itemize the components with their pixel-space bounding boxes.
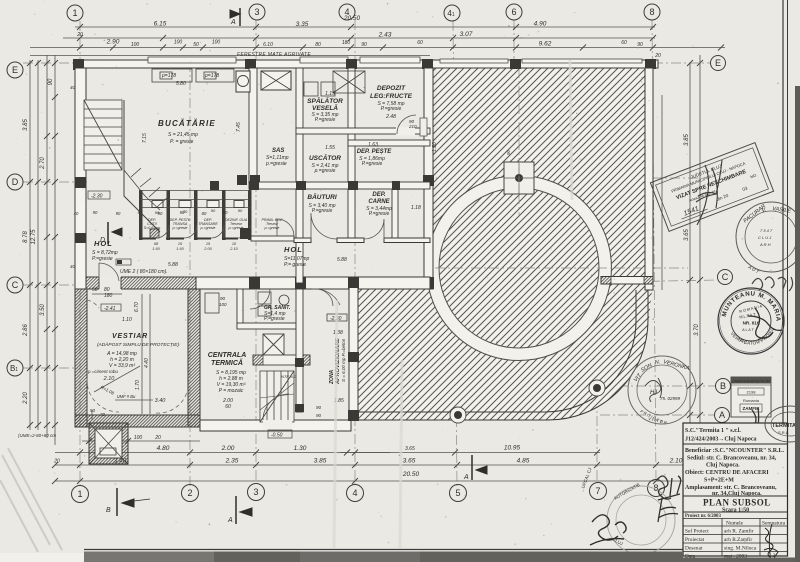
svg-text:90: 90 bbox=[93, 210, 98, 215]
svg-text:VESTIAR: VESTIAR bbox=[112, 333, 148, 340]
svg-text:P.=gresie: P.=gresie bbox=[362, 161, 383, 167]
svg-text:arh R.Zamfir: arh R.Zamfir bbox=[724, 536, 752, 543]
interior wall dep peste top bbox=[348, 140, 430, 146]
svg-text:2.86: 2.86 bbox=[23, 324, 29, 337]
svg-text:1.60: 1.60 bbox=[176, 247, 184, 251]
stamp termita oval bbox=[765, 406, 800, 442]
svg-text:70: 70 bbox=[100, 412, 106, 417]
svg-text:HOL: HOL bbox=[284, 245, 303, 254]
svg-text:p.=gresie: p.=gresie bbox=[314, 168, 336, 174]
svg-text:2.10: 2.10 bbox=[103, 376, 116, 382]
svg-text:p=178: p=178 bbox=[161, 73, 176, 79]
svg-text:40: 40 bbox=[74, 211, 79, 216]
pool centre square bbox=[504, 162, 534, 194]
label hol left bbox=[92, 239, 118, 262]
svg-text:D: D bbox=[12, 177, 19, 187]
handwritten signature jus bbox=[590, 515, 626, 545]
svg-text:5.88: 5.88 bbox=[337, 257, 347, 263]
terrace centreline bbox=[435, 267, 688, 269]
svg-text:75. 02999: 75. 02999 bbox=[660, 396, 681, 401]
centrala stair bbox=[260, 371, 294, 422]
vent grille marks bbox=[327, 314, 347, 322]
svg-text:7: 7 bbox=[595, 486, 600, 496]
svg-text:A: A bbox=[719, 410, 725, 420]
svg-text:5.88: 5.88 bbox=[168, 262, 178, 268]
axis bubble E left bbox=[7, 62, 23, 78]
svg-text:Desenat: Desenat bbox=[685, 546, 703, 552]
svg-text:100: 100 bbox=[134, 435, 143, 441]
svg-text:90: 90 bbox=[116, 211, 121, 216]
svg-text:C: C bbox=[722, 272, 729, 282]
svg-text:3.65: 3.65 bbox=[403, 458, 416, 465]
svg-text:arh R. Zamfir: arh R. Zamfir bbox=[724, 528, 754, 535]
axis bubble 4 bottom bbox=[347, 485, 364, 502]
svg-text:4.40: 4.40 bbox=[144, 358, 150, 368]
svg-text:TERMITA: TERMITA bbox=[772, 423, 796, 429]
label gr sanit bbox=[264, 305, 290, 322]
svg-text:Semnatura: Semnatura bbox=[762, 521, 786, 527]
svg-text:3.85: 3.85 bbox=[23, 119, 29, 131]
svg-text:100: 100 bbox=[212, 40, 221, 46]
svg-text:Sef Proiect: Sef Proiect bbox=[685, 528, 709, 535]
label depozit bbox=[370, 85, 413, 120]
svg-text:40: 40 bbox=[70, 85, 76, 90]
svg-text:7 5 4 7: 7 5 4 7 bbox=[760, 228, 773, 233]
svg-text:80: 80 bbox=[315, 42, 321, 48]
svg-text:NR. 616: NR. 616 bbox=[743, 321, 760, 326]
svg-text:2.10: 2.10 bbox=[229, 247, 238, 251]
interior wall spalator/uscator bbox=[296, 128, 430, 134]
vestiar west wall bbox=[75, 289, 87, 427]
door arcs interior bbox=[99, 115, 416, 309]
svg-text:A R H: A R H bbox=[759, 242, 771, 247]
svg-text:p=178: p=178 bbox=[204, 73, 219, 79]
bottom-left corner smudge bbox=[0, 448, 62, 552]
svg-text:12.75: 12.75 bbox=[31, 229, 37, 245]
svg-text:2.43: 2.43 bbox=[378, 32, 392, 39]
svg-text:Obiect: CENTRU DE AFACERI: Obiect: CENTRU DE AFACERI bbox=[685, 470, 769, 476]
top dimension labels bbox=[76, 15, 661, 59]
bottom dimension labels bbox=[53, 435, 722, 478]
axis bubble 8 top bbox=[644, 4, 660, 20]
pool ring bbox=[433, 182, 605, 354]
axis bubble B right bbox=[716, 379, 731, 394]
vestiar east wall bbox=[188, 289, 200, 427]
svg-text:5: 5 bbox=[455, 488, 460, 498]
axis bubble B1 left bbox=[7, 360, 23, 376]
svg-text:Proiect nr. 6/2003: Proiect nr. 6/2003 bbox=[685, 514, 721, 519]
svg-text:2.10: 2.10 bbox=[669, 458, 683, 465]
svg-text:P.=gresie: P.=gresie bbox=[381, 106, 402, 112]
svg-text:90: 90 bbox=[211, 208, 216, 213]
svg-text:100: 100 bbox=[174, 40, 183, 46]
stamp vizat rectangular bbox=[650, 143, 773, 232]
svg-text:1.30: 1.30 bbox=[294, 445, 307, 452]
svg-text:p.=gresie: p.=gresie bbox=[200, 226, 216, 230]
kitchen shaft left bbox=[236, 71, 250, 92]
top dimension ticks bbox=[77, 24, 724, 51]
svg-text:Scara 1:50: Scara 1:50 bbox=[722, 508, 749, 514]
svg-text:Beneficiar :S.C."NCOUNTER" S.R: Beneficiar :S.C."NCOUNTER" S.R.L. bbox=[685, 448, 785, 454]
svg-text:3.85: 3.85 bbox=[314, 458, 327, 465]
vitson signature bbox=[645, 378, 662, 402]
axis bubble D left bbox=[7, 174, 23, 190]
svg-text:SAS: SAS bbox=[272, 148, 284, 154]
right dimension labels bbox=[684, 134, 700, 436]
wall x296 lower extension bbox=[296, 289, 303, 412]
svg-text:50: 50 bbox=[193, 42, 199, 48]
left dimension labels bbox=[23, 78, 54, 405]
svg-text:4.80: 4.80 bbox=[157, 445, 170, 452]
svg-text:4.90: 4.90 bbox=[534, 21, 547, 28]
svg-text:P.=gresie: P.=gresie bbox=[369, 211, 390, 217]
gr sanit fixtures2 bbox=[258, 292, 289, 316]
svg-text:90: 90 bbox=[361, 42, 367, 48]
svg-text:3.07: 3.07 bbox=[460, 31, 473, 38]
svg-text:60: 60 bbox=[225, 404, 231, 410]
label hol right bbox=[284, 245, 310, 268]
svg-text:20: 20 bbox=[76, 32, 83, 38]
svg-text:p.=gresie: p.=gresie bbox=[172, 226, 188, 230]
svg-text:100: 100 bbox=[131, 42, 140, 48]
svg-text:90: 90 bbox=[220, 296, 226, 301]
svg-text:1.63: 1.63 bbox=[368, 142, 378, 148]
svg-text:20: 20 bbox=[154, 435, 161, 441]
svg-text:50: 50 bbox=[92, 287, 98, 293]
svg-text:DEP. PEȘTE: DEP. PEȘTE bbox=[357, 149, 393, 155]
svg-text:P.=gresie: P.=gresie bbox=[312, 208, 333, 214]
svg-text:PLAN SUBSOL: PLAN SUBSOL bbox=[703, 498, 771, 508]
label zona aprovizionare bbox=[329, 338, 346, 385]
svg-text:S=0,81mp: S=0,81mp bbox=[144, 226, 160, 230]
axis bubble 41 top bbox=[444, 5, 460, 21]
misc small dims inside plan bbox=[18, 73, 511, 452]
terrace hatched slab bbox=[358, 66, 652, 420]
svg-text:BĂUTURI: BĂUTURI bbox=[307, 192, 336, 201]
svg-text:3.40: 3.40 bbox=[155, 398, 167, 404]
vizat handwriting bbox=[696, 160, 722, 225]
stair top-left bbox=[84, 100, 168, 232]
label dep carne bbox=[366, 192, 392, 217]
svg-text:S = 6,00 mp P.=beton: S = 6,00 mp P.=beton bbox=[341, 338, 346, 382]
scan edge right band bbox=[795, 86, 800, 562]
axis bubble 5 bottom bbox=[450, 485, 467, 502]
svg-text:90: 90 bbox=[316, 413, 322, 418]
svg-text:E: E bbox=[12, 65, 18, 75]
label centrala termica bbox=[208, 352, 247, 410]
column circle axis5 bbox=[450, 407, 466, 423]
stamp vitson circular bbox=[628, 356, 696, 424]
svg-text:p.=ciment robu: p.=ciment robu bbox=[87, 369, 118, 374]
svg-text:2.48: 2.48 bbox=[385, 114, 396, 120]
svg-text:1.30: 1.30 bbox=[432, 142, 438, 152]
svg-text:P.= gresie: P.= gresie bbox=[284, 262, 306, 268]
svg-text:80: 80 bbox=[138, 210, 143, 215]
svg-text:Sediul: str. C. Brancoveanu, n: Sediul: str. C. Brancoveanu, nr. 34, bbox=[687, 456, 777, 462]
svg-text:B: B bbox=[720, 381, 726, 391]
svg-text:90: 90 bbox=[238, 208, 243, 213]
svg-text:10.95: 10.95 bbox=[504, 445, 521, 452]
vestiar interior marks bbox=[87, 300, 187, 413]
top dimension lines bbox=[30, 27, 725, 56]
svg-text:90: 90 bbox=[316, 405, 322, 410]
interior wall x296 bbox=[296, 68, 303, 283]
svg-text:40: 40 bbox=[70, 264, 76, 269]
corridor door arc bbox=[312, 289, 340, 305]
munteanu signature bbox=[748, 308, 782, 338]
svg-text:DEPOZIT: DEPOZIT bbox=[377, 85, 406, 92]
interior wall y182 bbox=[249, 182, 430, 189]
label spalator bbox=[307, 91, 343, 123]
svg-text:6.10: 6.10 bbox=[263, 42, 273, 48]
svg-text:90: 90 bbox=[506, 149, 511, 155]
svg-text:3.70: 3.70 bbox=[694, 324, 700, 336]
svg-text:5.80: 5.80 bbox=[176, 81, 186, 87]
svg-text:SPĂLĂTOR: SPĂLĂTOR bbox=[307, 96, 343, 105]
svg-text:2.35: 2.35 bbox=[225, 458, 239, 465]
svg-text:2198: 2198 bbox=[747, 390, 757, 395]
stamp pacurar circular bbox=[736, 202, 800, 272]
svg-text:P.=gresie: P.=gresie bbox=[92, 256, 113, 262]
duct shaft crossed bbox=[261, 71, 291, 90]
section flag A bottom bbox=[227, 496, 252, 524]
section flag A mid bbox=[463, 455, 487, 481]
svg-text:P. = gresie: P. = gresie bbox=[170, 139, 194, 145]
svg-text:Cluj Napoca.: Cluj Napoca. bbox=[706, 463, 740, 469]
svg-text:1.60: 1.60 bbox=[152, 247, 160, 251]
svg-text:3: 3 bbox=[253, 487, 258, 497]
cabin dim labels bbox=[152, 242, 238, 251]
cabin partition walls bbox=[139, 190, 252, 240]
svg-text:S = 21,45 mp: S = 21,45 mp bbox=[168, 132, 198, 138]
svg-text:2.20: 2.20 bbox=[23, 392, 29, 405]
svg-text:C: C bbox=[12, 280, 19, 290]
svg-text:6.70: 6.70 bbox=[134, 302, 140, 312]
left dimension ticks bbox=[27, 60, 58, 428]
svg-text:A: A bbox=[227, 517, 233, 524]
svg-text:CENTRALA: CENTRALA bbox=[208, 352, 247, 359]
misc level boxes bbox=[88, 191, 292, 439]
svg-text:3.65: 3.65 bbox=[684, 229, 690, 241]
signature top right corner bbox=[752, 277, 793, 291]
svg-text:(ADĂPOST SIMPLU DE PROTECȚIE): (ADĂPOST SIMPLU DE PROTECȚIE) bbox=[97, 341, 179, 348]
svg-text:7.15: 7.15 bbox=[142, 133, 148, 143]
kitchen se column bbox=[240, 228, 251, 239]
svg-text:1.15: 1.15 bbox=[325, 91, 335, 97]
axis bubble 8 bottom bbox=[648, 480, 665, 497]
svg-text:6: 6 bbox=[511, 7, 516, 17]
svg-text:D: D bbox=[100, 237, 105, 244]
svg-text:50: 50 bbox=[90, 408, 96, 413]
axis bubble A right bbox=[715, 408, 730, 423]
scan edge bottom band bbox=[84, 552, 683, 562]
svg-text:90: 90 bbox=[180, 210, 185, 215]
svg-text:Numele: Numele bbox=[726, 521, 744, 527]
svg-text:A: A bbox=[230, 19, 236, 26]
cabin labels bbox=[144, 208, 248, 230]
svg-text:C L U J: C L U J bbox=[758, 235, 772, 240]
svg-text:2.90: 2.90 bbox=[106, 39, 120, 46]
svg-text:90: 90 bbox=[48, 78, 54, 85]
door gap depozit bbox=[396, 127, 415, 136]
certificate box above title bbox=[731, 377, 771, 440]
svg-text:-0.50: -0.50 bbox=[271, 433, 283, 439]
svg-text:ZONA: ZONA bbox=[329, 369, 335, 385]
wall C door gap bbox=[99, 276, 121, 290]
terrace east wall bbox=[645, 68, 653, 290]
svg-text:sing. M.Niluca: sing. M.Niluca bbox=[724, 546, 757, 552]
bottom dimension ticks bbox=[52, 438, 756, 484]
svg-text:180: 180 bbox=[342, 40, 351, 46]
exterior shaft bbox=[89, 423, 128, 464]
svg-text:20.50: 20.50 bbox=[402, 471, 420, 478]
left dimension lines bbox=[30, 55, 55, 445]
svg-text:S+P+2E+M: S+P+2E+M bbox=[704, 478, 734, 484]
label dep peste bbox=[357, 142, 393, 167]
cabin window boxes bbox=[152, 201, 244, 208]
right dimension lines bbox=[662, 55, 700, 460]
svg-text:BUCĂTĂRIE: BUCĂTĂRIE bbox=[158, 119, 216, 128]
svg-text:2.00: 2.00 bbox=[203, 247, 212, 251]
section flag B bottom bbox=[106, 488, 150, 516]
label sas bbox=[265, 148, 289, 167]
stamp munteanu circular bbox=[718, 288, 784, 354]
svg-text:3: 3 bbox=[254, 7, 259, 17]
svg-text:20: 20 bbox=[53, 459, 60, 465]
svg-text:1.10: 1.10 bbox=[122, 317, 132, 323]
svg-text:(UME=2-80+80 cm: (UME=2-80+80 cm bbox=[18, 433, 56, 438]
svg-text:Proiectat: Proiectat bbox=[685, 537, 705, 543]
svg-text:90: 90 bbox=[158, 211, 163, 216]
svg-text:210: 210 bbox=[408, 124, 417, 129]
svg-text:2: 2 bbox=[187, 488, 192, 498]
axis bubble 4 top bbox=[339, 4, 355, 20]
building east wall bbox=[424, 68, 433, 289]
svg-text:P = mozaic: P = mozaic bbox=[219, 388, 244, 394]
vertical duct column mid bbox=[210, 175, 247, 190]
gr sanit room walls bbox=[237, 289, 296, 329]
interior wall x348 bbox=[348, 68, 355, 242]
axis bubble 1 bottom bbox=[72, 486, 89, 503]
svg-text:1: 1 bbox=[72, 8, 77, 18]
title block bbox=[683, 423, 788, 560]
title block signatures bbox=[764, 524, 778, 559]
svg-text:TERMICĂ: TERMICĂ bbox=[211, 358, 243, 367]
sheet frame bottom bbox=[84, 549, 788, 551]
axis bubble 3 top bbox=[249, 4, 265, 20]
svg-text:3.35: 3.35 bbox=[296, 21, 309, 28]
svg-text:E: E bbox=[715, 58, 721, 68]
svg-text:VESELĂ: VESELĂ bbox=[312, 103, 338, 112]
terrace south wall with curve bbox=[358, 290, 636, 412]
sheet frame right bbox=[782, 0, 784, 551]
svg-text:LEG:FRUCTE: LEG:FRUCTE bbox=[370, 93, 413, 100]
svg-text:Romania: Romania bbox=[743, 398, 760, 403]
interior wall kitchen east bbox=[249, 68, 257, 183]
axis bubble 7 bottom bbox=[590, 483, 607, 500]
svg-text:1.70: 1.70 bbox=[135, 380, 141, 390]
north wall columns bbox=[73, 59, 656, 70]
svg-text:UME 2 ( 80×180 cm).: UME 2 ( 80×180 cm). bbox=[120, 269, 168, 275]
axis centerlines vertical bbox=[80, 20, 656, 486]
svg-text:p.=gresie: p.=gresie bbox=[265, 161, 287, 167]
axis bubble 3 bottom bbox=[248, 484, 265, 501]
bauturi & carne bottom wall bbox=[294, 238, 430, 243]
label bauturi bbox=[307, 192, 336, 214]
svg-text:3.50: 3.50 bbox=[40, 304, 46, 316]
svg-text:CARNE: CARNE bbox=[368, 199, 390, 205]
svg-text:6.15: 6.15 bbox=[154, 21, 167, 28]
svg-text:8: 8 bbox=[653, 483, 658, 493]
handwritten note 812 bbox=[657, 476, 681, 522]
ct duct assembly bbox=[253, 334, 310, 365]
kitchen lower dim row bbox=[74, 210, 228, 216]
faint round stamp bottom bbox=[607, 486, 675, 554]
svg-text:-2.41: -2.41 bbox=[104, 306, 116, 312]
column circle axis7 bbox=[589, 380, 605, 396]
kitchen counters top bbox=[152, 69, 234, 82]
svg-text:60: 60 bbox=[621, 40, 627, 46]
svg-text:2.00: 2.00 bbox=[221, 445, 235, 452]
svg-text:1.18: 1.18 bbox=[411, 205, 421, 211]
svg-text:20: 20 bbox=[654, 53, 661, 59]
bottom dimension lines bbox=[55, 441, 757, 481]
svg-text:1.55: 1.55 bbox=[325, 145, 335, 151]
prima buc cell bbox=[262, 218, 283, 230]
cabin top and sill lines bbox=[139, 191, 251, 208]
axis bubble E right bbox=[711, 56, 726, 71]
label bucatarie bbox=[158, 119, 216, 145]
svg-text:4: 4 bbox=[352, 488, 357, 498]
svg-text:3.65: 3.65 bbox=[405, 446, 415, 452]
svg-text:DEP.: DEP. bbox=[372, 192, 386, 198]
svg-text:J12/424/2003→Cluj Napoca: J12/424/2003→Cluj Napoca bbox=[685, 437, 757, 443]
wall C right segment bbox=[601, 277, 653, 285]
ct equipment bbox=[205, 293, 219, 313]
axis bubble 2 bottom bbox=[182, 485, 199, 502]
svg-text:P.=gresie: P.=gresie bbox=[264, 316, 285, 322]
svg-text:P.=gresie: P.=gresie bbox=[315, 117, 336, 123]
svg-text:4.85: 4.85 bbox=[517, 458, 530, 465]
svg-text:UMF # Bu: UMF # Bu bbox=[117, 394, 136, 399]
dep carne east wall bbox=[392, 185, 398, 242]
paper fold streaks bbox=[334, 60, 572, 548]
svg-text:2.70: 2.70 bbox=[40, 157, 46, 170]
svg-text:7.45: 7.45 bbox=[236, 122, 242, 132]
spalator fixtures bbox=[304, 71, 365, 96]
axis bubble C right bbox=[718, 270, 733, 285]
centrala termica south wall bbox=[200, 420, 351, 431]
vestiar south wall bbox=[75, 415, 200, 427]
aprovizionare east wall bbox=[349, 279, 358, 420]
svg-text:8: 8 bbox=[649, 7, 654, 17]
svg-text:8.78: 8.78 bbox=[23, 231, 29, 243]
cabin sink block bbox=[150, 229, 159, 238]
svg-text:A L A T: A L A T bbox=[742, 328, 755, 332]
svg-text:180: 180 bbox=[104, 293, 113, 299]
svg-text:B: B bbox=[106, 507, 111, 514]
section flag A top bbox=[230, 8, 240, 26]
terrace centreline vertical bbox=[518, 68, 520, 215]
svg-text:60: 60 bbox=[417, 40, 423, 46]
north wall bbox=[75, 57, 658, 68]
svg-text:-2.30: -2.30 bbox=[91, 194, 103, 200]
svg-text:N.: N. bbox=[654, 359, 660, 366]
svg-text:4: 4 bbox=[344, 7, 349, 17]
axis bubble 1 top bbox=[67, 5, 83, 21]
svg-text:A: A bbox=[463, 474, 469, 481]
axis centerlines horizontal bbox=[23, 63, 717, 415]
